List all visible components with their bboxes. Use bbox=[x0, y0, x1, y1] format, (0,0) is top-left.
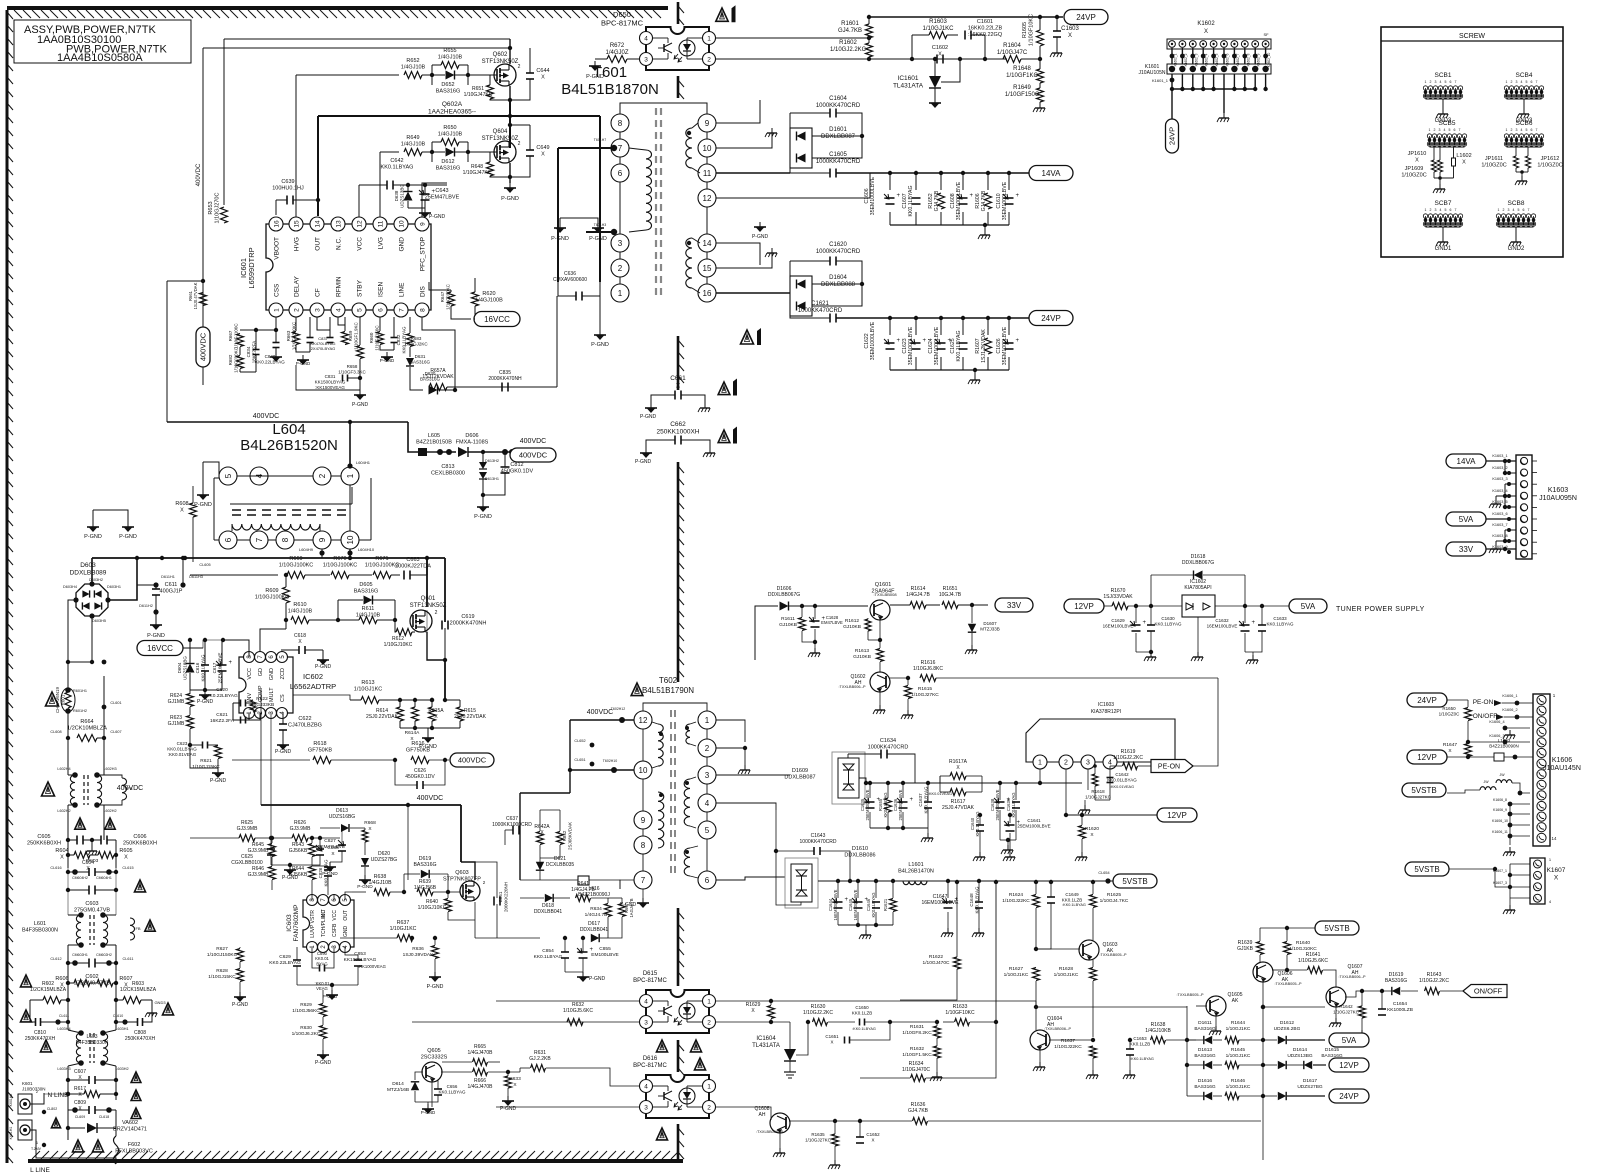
isolation barrier segment bbox=[677, 2, 680, 24]
svg-text:5: 5 bbox=[705, 826, 710, 835]
wire bbox=[30, 1093, 44, 1104]
svg-text:5VSTB: 5VSTB bbox=[1324, 924, 1349, 933]
svg-text:3: 3 bbox=[644, 56, 648, 63]
capacitor C1637 bbox=[924, 801, 932, 803]
wire bbox=[411, 938, 413, 1022]
capacitor C604 X bbox=[88, 868, 90, 876]
svg-text:VCC: VCC bbox=[332, 910, 338, 921]
svg-text:7: 7 bbox=[398, 308, 405, 312]
svg-text:JW: JW bbox=[1483, 780, 1489, 784]
wire bbox=[183, 647, 203, 649]
svg-text:T602H10: T602H10 bbox=[603, 759, 617, 763]
resistor R1612 bbox=[865, 619, 871, 631]
wire bbox=[496, 1106, 639, 1108]
wire bbox=[818, 880, 1113, 882]
svg-text::KK0.01VEAG: :KK0.01VEAG bbox=[1110, 785, 1134, 789]
svg-text:JP16121/10GZ0C: JP16121/10GZ0C bbox=[1537, 156, 1562, 169]
wire bbox=[358, 185, 360, 217]
wire bbox=[422, 183, 447, 217]
resistor R668 bbox=[362, 830, 368, 842]
wire bbox=[260, 690, 262, 805]
svg-text:7: 7 bbox=[1536, 128, 1538, 132]
capacitor C854 bbox=[561, 951, 569, 953]
svg-text:1AA4B10S0580A: 1AA4B10S0580A bbox=[57, 52, 143, 64]
svg-text:3: 3 bbox=[1435, 80, 1437, 84]
wire bbox=[586, 231, 611, 233]
wire bbox=[259, 650, 261, 651]
ground bbox=[1007, 845, 1009, 850]
capacitor C1634 bbox=[880, 750, 882, 759]
svg-text:5VA: 5VA bbox=[1459, 515, 1474, 524]
resistor R660 bbox=[377, 332, 384, 345]
ground bbox=[427, 1104, 429, 1109]
wire bbox=[558, 147, 611, 149]
wire bbox=[995, 882, 997, 1022]
transformer L604 B4L26B1520N bbox=[219, 467, 237, 485]
resistor R611 bbox=[359, 617, 377, 624]
wire bbox=[68, 661, 92, 663]
varistor VA602 ERZV14D471 bbox=[87, 1123, 97, 1133]
warning triangle bbox=[694, 1058, 705, 1070]
resistor R607 bbox=[97, 980, 113, 987]
resistor R617 X bbox=[84, 1091, 100, 1098]
resistor R608 bbox=[190, 503, 197, 517]
wire bbox=[475, 937, 540, 939]
resistor R1630 bbox=[813, 1019, 828, 1026]
svg-text:SCB6: SCB6 bbox=[1516, 120, 1533, 127]
warning triangle bbox=[690, 1040, 701, 1052]
dot CL652 bbox=[590, 743, 595, 748]
svg-text:K1606_8: K1606_8 bbox=[1493, 798, 1507, 802]
svg-text:2: 2 bbox=[1430, 208, 1432, 212]
svg-text:K1603_9: K1603_9 bbox=[1492, 545, 1507, 549]
wire bbox=[715, 37, 867, 39]
svg-text:L6599DTRP: L6599DTRP bbox=[247, 247, 256, 288]
oval 12VP bbox=[1329, 1058, 1369, 1072]
mosfet Q604 STF13NK50Z bbox=[494, 141, 516, 163]
svg-text:400VDC: 400VDC bbox=[199, 332, 208, 361]
resistor R1604 bbox=[1003, 56, 1021, 63]
resistor R1640 bbox=[1284, 942, 1291, 955]
svg-text::KK1000VEAG: :KK1000VEAG bbox=[358, 964, 386, 969]
svg-text:T602H12: T602H12 bbox=[611, 707, 625, 711]
svg-text:3: 3 bbox=[1516, 128, 1518, 132]
svg-text:P-GND: P-GND bbox=[275, 749, 292, 755]
svg-text::KK0.1LBYAG: :KK0.1LBYAG bbox=[1062, 903, 1086, 907]
svg-text:P-GND: P-GND bbox=[752, 234, 769, 240]
ground bbox=[155, 620, 157, 625]
svg-text:R1613GJ10KB: R1613GJ10KB bbox=[853, 648, 871, 660]
ground bbox=[386, 352, 388, 357]
svg-text:1: 1 bbox=[1506, 80, 1508, 84]
wire bbox=[320, 837, 340, 839]
warning triangle bbox=[105, 818, 115, 829]
wire bbox=[429, 310, 471, 319]
svg-text:1: 1 bbox=[1425, 208, 1427, 212]
resistor R623 bbox=[187, 716, 194, 729]
capacitor C1654 bbox=[1378, 1008, 1386, 1010]
resistor R650 bbox=[441, 139, 459, 146]
connector K1607 bbox=[1530, 858, 1545, 904]
K1603 wiring bbox=[1505, 461, 1516, 473]
diode D606 FMXA-1108S bbox=[458, 447, 468, 457]
capacitor C1651 bbox=[844, 1037, 846, 1044]
capacitor C623 bbox=[202, 742, 204, 749]
svg-text:FAN7602MP: FAN7602MP bbox=[293, 905, 300, 942]
wire bbox=[716, 1086, 745, 1107]
svg-text:L603H2: L603H2 bbox=[115, 1067, 128, 1071]
svg-text:JP16111/10GZ0C: JP16111/10GZ0C bbox=[1481, 156, 1506, 169]
wire bbox=[779, 1133, 781, 1148]
svg-text::TXXLBB008: :TXXLBB008 bbox=[873, 592, 897, 597]
resistor R1632 bbox=[934, 1046, 941, 1058]
resistor R1605 bbox=[1037, 30, 1044, 46]
ground bbox=[865, 930, 867, 935]
resistor R1650 bbox=[1465, 708, 1472, 721]
wire bbox=[345, 892, 352, 900]
diode D619 BAS316G bbox=[421, 870, 429, 878]
transistor Q1603 bbox=[1079, 940, 1099, 960]
svg-text:P-GND: P-GND bbox=[84, 534, 102, 540]
transistor Q1606 AK bbox=[1253, 962, 1273, 982]
svg-text:LINE: LINE bbox=[399, 282, 406, 297]
svg-text:P-GND: P-GND bbox=[380, 358, 395, 363]
wire bbox=[240, 939, 303, 941]
svg-text:D603H2: D603H2 bbox=[89, 578, 103, 582]
svg-text:400VDC: 400VDC bbox=[417, 795, 443, 802]
oval 33V bbox=[1446, 542, 1486, 556]
resistor R1613 bbox=[877, 649, 884, 662]
wire bbox=[716, 100, 760, 123]
wire bbox=[92, 557, 445, 559]
wire bbox=[1036, 948, 1080, 950]
wire bbox=[776, 810, 801, 905]
resistor R643 bbox=[309, 844, 316, 857]
oval 16VCC bbox=[474, 312, 520, 327]
resistor R1638 bbox=[1151, 1037, 1166, 1044]
svg-text:5: 5 bbox=[356, 308, 363, 312]
svg-text:7: 7 bbox=[618, 144, 623, 153]
resistor R667b bbox=[619, 904, 626, 917]
warning triangle bbox=[46, 692, 59, 706]
ground bbox=[1252, 655, 1254, 660]
resistor R646 bbox=[269, 867, 276, 880]
ferrite beads bbox=[1480, 787, 1496, 790]
ground bbox=[599, 330, 601, 335]
svg-text:CL601: CL601 bbox=[110, 701, 121, 705]
ground bbox=[744, 765, 746, 770]
svg-text:3: 3 bbox=[1516, 80, 1518, 84]
svg-text:SCREW: SCREW bbox=[1459, 33, 1485, 40]
svg-text:400VDC: 400VDC bbox=[117, 785, 143, 792]
capacitor C1621 bbox=[829, 314, 831, 323]
wire bbox=[311, 895, 313, 900]
wire bbox=[349, 549, 351, 558]
wire bbox=[407, 805, 409, 838]
wire bbox=[716, 283, 790, 285]
wire bbox=[569, 720, 571, 793]
ground bbox=[559, 223, 561, 228]
K1606 lower pins bbox=[1510, 803, 1530, 805]
svg-text:P-GND: P-GND bbox=[323, 994, 338, 999]
svg-text:L602H3: L602H3 bbox=[103, 767, 116, 771]
capacitor C603 275GM0.47VB bbox=[88, 886, 90, 895]
wire bbox=[167, 421, 408, 423]
wire bbox=[91, 616, 93, 662]
wire bbox=[67, 840, 69, 868]
capacitor C890 bbox=[319, 965, 321, 972]
svg-text:T601: T601 bbox=[593, 64, 627, 81]
wire bbox=[30, 1130, 116, 1164]
svg-text:4: 4 bbox=[1440, 80, 1442, 84]
svg-text:P-GND: P-GND bbox=[589, 236, 607, 242]
capacitor C1648 bbox=[975, 901, 983, 903]
capacitor C832 bbox=[391, 337, 398, 339]
svg-text:D613H1: D613H1 bbox=[485, 477, 499, 481]
svg-text:P-GND: P-GND bbox=[429, 214, 446, 220]
svg-text:4: 4 bbox=[1521, 80, 1523, 84]
wire bbox=[444, 699, 446, 701]
svg-text:K1602_1: K1602_1 bbox=[1174, 53, 1178, 66]
wire bbox=[115, 1158, 117, 1164]
capacitor C841 bbox=[307, 337, 314, 339]
diode D617 DDXLBB041 bbox=[591, 934, 599, 942]
svg-text:7: 7 bbox=[255, 537, 264, 542]
resistor R630 bbox=[320, 1026, 327, 1039]
capacitor C827 35EM47LBVE bbox=[338, 840, 344, 846]
resistor R639 bbox=[417, 889, 433, 896]
svg-text:D611H2: D611H2 bbox=[139, 604, 153, 608]
warning triangle bbox=[42, 782, 55, 796]
svg-text:K1606_2: K1606_2 bbox=[1502, 708, 1517, 712]
oval 400VDC bbox=[510, 448, 556, 462]
svg-text::KK0.1LBYAG: :KK0.1LBYAG bbox=[1130, 1057, 1154, 1061]
svg-text:SCB5: SCB5 bbox=[1439, 120, 1456, 127]
svg-text:16: 16 bbox=[703, 289, 712, 298]
zener D620 UDZS27BG bbox=[361, 858, 369, 866]
wire bbox=[1065, 769, 1067, 815]
capacitor C831 bbox=[342, 375, 344, 382]
svg-text:1: 1 bbox=[1506, 128, 1508, 132]
svg-text:L602H4: L602H4 bbox=[57, 767, 70, 771]
ground bbox=[771, 128, 773, 133]
svg-text:N.C.: N.C. bbox=[336, 237, 343, 250]
svg-text:8: 8 bbox=[641, 841, 646, 850]
svg-text:CL608: CL608 bbox=[50, 730, 61, 734]
svg-text:P-GND: P-GND bbox=[147, 633, 165, 639]
svg-text:K1606_1: K1606_1 bbox=[1502, 694, 1517, 698]
svg-text:L6562ADTRP: L6562ADTRP bbox=[290, 682, 336, 691]
ground bbox=[582, 972, 584, 977]
svg-text:K1603_2: K1603_2 bbox=[1492, 466, 1507, 470]
svg-text:K601H1: K601H1 bbox=[9, 1127, 13, 1140]
svg-text:4: 4 bbox=[1108, 760, 1112, 767]
svg-text:3: 3 bbox=[618, 239, 623, 248]
resistor R651 bbox=[487, 85, 494, 99]
svg-text:HVG: HVG bbox=[294, 237, 301, 251]
diode D1601 DDXLBB087 bbox=[790, 128, 812, 168]
svg-text:P-GND: P-GND bbox=[315, 1060, 332, 1066]
resistor R648 bbox=[487, 162, 494, 176]
svg-text:2: 2 bbox=[518, 141, 521, 147]
wire bbox=[296, 74, 399, 76]
svg-text:5VSTB: 5VSTB bbox=[1122, 877, 1147, 886]
zener D1617 UDZS27BG bbox=[1278, 1092, 1286, 1100]
svg-text:+: + bbox=[1016, 193, 1020, 199]
svg-text:14: 14 bbox=[703, 239, 712, 248]
svg-text:CL618: CL618 bbox=[99, 1115, 109, 1119]
svg-text:6: 6 bbox=[1531, 80, 1533, 84]
C1636 bbox=[899, 801, 908, 803]
svg-text:3: 3 bbox=[705, 771, 710, 780]
svg-text:ON/OFF: ON/OFF bbox=[1473, 713, 1498, 720]
svg-text:L603H4: L603H4 bbox=[57, 1027, 70, 1031]
svg-text:+: + bbox=[970, 193, 974, 199]
svg-text:2: 2 bbox=[707, 56, 711, 63]
ground GND3 bbox=[91, 846, 93, 851]
svg-text:2: 2 bbox=[435, 610, 438, 616]
capacitor C1652 bbox=[856, 1136, 864, 1138]
inductor L605 B4Z21B0150B bbox=[418, 448, 427, 456]
capacitor C840 bbox=[273, 342, 280, 344]
svg-text:RFMIN: RFMIN bbox=[336, 276, 343, 297]
wire bbox=[1204, 1021, 1206, 1023]
svg-text:9: 9 bbox=[318, 537, 327, 542]
capacitor C635 bbox=[501, 383, 503, 392]
svg-text:CSS: CSS bbox=[274, 283, 281, 297]
svg-text:8: 8 bbox=[419, 308, 426, 312]
resistor R638 bbox=[374, 889, 390, 896]
fuse F602 FFXLBB003VC bbox=[114, 1136, 119, 1164]
svg-text:2: 2 bbox=[1511, 128, 1513, 132]
svg-text:R1611GJ10KB: R1611GJ10KB bbox=[779, 616, 797, 628]
wire bbox=[460, 823, 462, 862]
wire bbox=[67, 711, 69, 738]
resistor R624 bbox=[187, 694, 194, 707]
svg-text:400VDC: 400VDC bbox=[458, 756, 487, 765]
svg-text:+: + bbox=[923, 338, 927, 344]
svg-text:2: 2 bbox=[707, 1104, 711, 1111]
svg-text:3: 3 bbox=[314, 308, 321, 312]
capacitor C1643 bbox=[813, 847, 815, 855]
oval 5VA bbox=[1329, 1033, 1369, 1047]
svg-text:SCB4: SCB4 bbox=[1516, 72, 1533, 79]
resistor R1625 bbox=[1090, 895, 1097, 908]
transistor Q1605 AK bbox=[1206, 996, 1226, 1016]
wire bbox=[1496, 783, 1505, 790]
svg-text:B4L51B1790N: B4L51B1790N bbox=[642, 686, 694, 695]
resistor R1644 bbox=[1225, 1037, 1239, 1044]
C1644 bbox=[834, 901, 843, 903]
svg-text:JW: JW bbox=[1499, 773, 1505, 777]
wire bbox=[422, 317, 455, 390]
svg-text:7: 7 bbox=[1455, 80, 1457, 84]
svg-text:VCC: VCC bbox=[247, 668, 253, 680]
svg-text:R1639GJ1KB: R1639GJ1KB bbox=[1237, 940, 1254, 952]
wire bbox=[838, 924, 893, 926]
resistor R1617 bbox=[950, 789, 966, 796]
diode D1609 DDXLBB087 bbox=[832, 752, 865, 804]
resistor R625 bbox=[239, 835, 255, 842]
wire bbox=[1039, 1050, 1041, 1062]
svg-text:JP16091/10GZ0C: JP16091/10GZ0C bbox=[1401, 166, 1426, 179]
wire bbox=[1035, 1007, 1037, 1030]
wire bbox=[67, 1140, 69, 1158]
svg-text:4: 4 bbox=[644, 35, 648, 42]
diode D652 BAS316G bbox=[446, 71, 455, 80]
capacitor C1650 bbox=[859, 1019, 861, 1026]
resistor R612 bbox=[396, 629, 412, 636]
resistor R614 bbox=[397, 707, 404, 721]
svg-text:D611H1: D611H1 bbox=[161, 575, 175, 579]
wire bbox=[716, 173, 870, 198]
resistor R631 bbox=[531, 1065, 546, 1072]
svg-text::KK0.01VEAG: :KK0.01VEAG bbox=[315, 981, 331, 991]
svg-text:GND1: GND1 bbox=[1435, 246, 1452, 252]
wire bbox=[965, 783, 967, 815]
wire bbox=[716, 769, 790, 775]
capacitor bank C1606 C1607 R1652 C1608 R1606 C1610 bbox=[889, 173, 891, 190]
wire bbox=[349, 422, 351, 467]
svg-text:ZCD: ZCD bbox=[280, 668, 286, 679]
wire bbox=[91, 558, 93, 584]
svg-text:CF: CF bbox=[315, 288, 322, 297]
svg-text:PE-ON: PE-ON bbox=[1473, 699, 1494, 706]
resistor R632 bbox=[567, 1019, 583, 1026]
oval 24VP bbox=[1064, 10, 1108, 25]
ground bbox=[759, 222, 761, 227]
transistor Q1604 bbox=[1030, 1030, 1050, 1050]
wire bbox=[716, 172, 790, 174]
capacitor C1642 bbox=[1107, 777, 1114, 779]
diode D1619 BAS316G bbox=[1392, 987, 1400, 995]
svg-text:2: 2 bbox=[707, 1019, 711, 1026]
resistor R842 bbox=[557, 832, 564, 845]
wire bbox=[570, 769, 634, 771]
wire bbox=[30, 1094, 68, 1104]
svg-text::TXXLBB006--P: :TXXLBB006--P bbox=[756, 1130, 783, 1134]
resistor R663 bbox=[293, 332, 300, 345]
capacitor C611 400GJ1P bbox=[152, 588, 160, 590]
resistor R609 bbox=[283, 587, 290, 603]
wire bbox=[1512, 783, 1530, 793]
svg-text:2: 2 bbox=[318, 473, 327, 478]
svg-text:SCB1: SCB1 bbox=[1435, 72, 1452, 79]
capacitor C637 1000KK1000CRD bbox=[512, 826, 514, 835]
capacitor C1630 bbox=[1147, 624, 1155, 626]
wire bbox=[509, 39, 511, 64]
wire bbox=[352, 891, 366, 893]
svg-text:14: 14 bbox=[314, 220, 321, 228]
svg-text:K1603_5: K1603_5 bbox=[1492, 500, 1507, 504]
svg-text:PFC_STOP: PFC_STOP bbox=[420, 237, 427, 271]
capacitor C622 CJ470LBZBG bbox=[279, 723, 287, 725]
svg-text:P-GND: P-GND bbox=[232, 1002, 249, 1008]
zener D613 UDZS16BG bbox=[341, 824, 349, 832]
wire bbox=[425, 610, 427, 632]
choke L602 B4F35B0300N bbox=[70, 775, 75, 805]
svg-text:OUT: OUT bbox=[343, 910, 349, 921]
flag PE-ON bbox=[1151, 760, 1193, 773]
wire bbox=[859, 778, 866, 783]
svg-text:5: 5 bbox=[1526, 128, 1528, 132]
svg-text:K1602_10: K1602_10 bbox=[1267, 53, 1271, 68]
svg-text:4: 4 bbox=[1444, 128, 1446, 132]
wire bbox=[223, 39, 225, 205]
wire bbox=[270, 713, 272, 838]
connector K1606 J10AU145N bbox=[1533, 694, 1550, 846]
svg-text:6: 6 bbox=[618, 169, 623, 178]
